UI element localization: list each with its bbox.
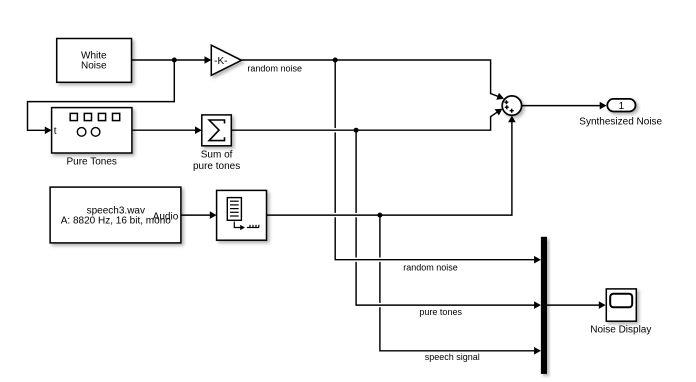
- svg-text:Noise Display: Noise Display: [590, 324, 651, 335]
- wire speech3.wav output to Unbuffer: [181, 211, 217, 219]
- wire Unbuffer output to sum circle bottom: [267, 116, 516, 216]
- gain block -K-: [211, 45, 241, 75]
- sum circle (Add): [502, 96, 521, 115]
- wire speech branch to Mux input 3: [380, 215, 541, 355]
- svg-text:-K-: -K-: [214, 56, 227, 67]
- block Sum of pure tones (sigma): [202, 115, 232, 146]
- wire Sum of pure tones output to sum circle lower-left: [231, 105, 504, 130]
- scope block Noise Display: [606, 289, 636, 321]
- svg-text:random noise: random noise: [247, 63, 302, 73]
- wire Pure Tones output to Sum of pure tones: [132, 126, 202, 134]
- svg-text:Synthesized Noise: Synthesized Noise: [579, 117, 662, 128]
- svg-text:pure tones: pure tones: [419, 307, 462, 317]
- wire gain output (random noise) to sum circle upper-left: [241, 60, 505, 102]
- wire branch junction to Pure Tones input: [28, 60, 175, 134]
- plus sign input 3: [510, 109, 514, 113]
- svg-text:random noise: random noise: [403, 263, 458, 273]
- Mux bar: [541, 237, 547, 374]
- output port 1 Synthesized Noise: [607, 99, 635, 112]
- wire random noise branch to Mux input 1: [335, 60, 541, 264]
- svg-text:t: t: [54, 126, 57, 137]
- svg-text:Pure Tones: Pure Tones: [66, 157, 116, 168]
- junction node speech branch: [377, 213, 382, 218]
- svg-text:pure tones: pure tones: [193, 161, 240, 172]
- svg-text:Audio: Audio: [153, 212, 179, 223]
- plus sign input 2: [505, 105, 509, 109]
- block Pure Tones: [52, 108, 132, 153]
- junction node on white-noise wire: [172, 58, 177, 63]
- wire sum circle output to Out1 port: [522, 102, 607, 110]
- svg-text:Noise: Noise: [81, 60, 107, 71]
- svg-text:speech signal: speech signal: [425, 352, 480, 362]
- wire Mux output to scope: [547, 301, 606, 309]
- block Unbuffer U1: [217, 190, 267, 240]
- wire pure tones branch to Mux input 2: [356, 130, 541, 309]
- svg-text:1: 1: [619, 101, 625, 112]
- junction node pure-tones branch: [354, 128, 359, 133]
- wire White Noise output to gain: [132, 56, 212, 64]
- junction node random-noise branch: [333, 58, 338, 63]
- svg-text:Sum of: Sum of: [201, 150, 233, 161]
- block speech3.wav source: [50, 187, 181, 243]
- plus sign input 1: [504, 100, 508, 104]
- block White Noise: [57, 39, 132, 83]
